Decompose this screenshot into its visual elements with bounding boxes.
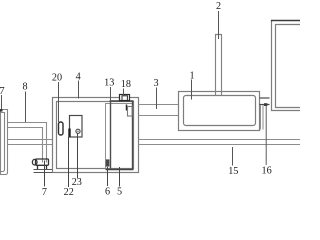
tick inside chamber top: [126, 105, 128, 111]
junction blob: [264, 103, 267, 106]
drop duct beside box 1: [261, 105, 264, 130]
leader 18: [123, 89, 125, 96]
leader 1: [191, 80, 193, 100]
pump 7: [32, 159, 48, 169]
tower box (top right): [272, 21, 301, 111]
box 4 outer: [53, 98, 139, 173]
chamber 5 dark top: [110, 100, 134, 102]
pipe 3: [139, 105, 179, 116]
leader 15: [232, 147, 234, 166]
box 1 inner: [184, 96, 256, 126]
svg-text:18: 18: [121, 79, 131, 90]
svg-text:15: 15: [228, 166, 238, 177]
svg-text:13: 13: [104, 78, 114, 89]
svg-text:7: 7: [42, 187, 47, 198]
tower top dark edge: [271, 20, 300, 22]
inlet bracket: [128, 107, 133, 117]
dark mark 22: [68, 129, 70, 138]
leader 3: [156, 88, 158, 110]
connector duct box1 to tower: [260, 98, 270, 105]
svg-text:20: 20: [52, 73, 62, 84]
leader 8: [25, 92, 27, 123]
leader 4: [78, 81, 80, 99]
chamber 5 dark right wall: [132, 101, 134, 170]
svg-text:3: 3: [153, 78, 158, 89]
chamber 5 outer shell: [106, 104, 134, 169]
svg-text:7: 7: [0, 85, 5, 97]
cap 18: [120, 95, 130, 101]
pipe lower left: [8, 140, 54, 145]
pipe 8 upper: [8, 123, 47, 163]
control box 22/23: [70, 116, 83, 138]
svg-text:8: 8: [22, 81, 27, 92]
leader 23: [77, 134, 79, 179]
leader 13: [110, 87, 112, 104]
leader 17: [1, 95, 3, 109]
leader 6: [107, 167, 109, 186]
leader 22: [68, 137, 70, 187]
leader 5: [119, 167, 121, 187]
svg-text:2: 2: [216, 1, 221, 12]
svg-text:5: 5: [117, 187, 122, 198]
vessel 17 (left edge, partially cut): [1, 110, 8, 175]
slot 20: [59, 122, 64, 135]
box 1 outer: [179, 92, 260, 131]
pump base plate: [34, 170, 53, 173]
leader 7: [44, 161, 46, 187]
pipe 15 (long bottom duct): [139, 140, 301, 145]
leader 20: [58, 82, 60, 122]
leader 2: [218, 11, 220, 39]
svg-text:6: 6: [105, 186, 110, 197]
circle 23: [76, 129, 80, 133]
vessel 17 top dark mark: [0, 109, 3, 112]
chamber 5 dark bottom: [106, 169, 134, 171]
svg-text:16: 16: [262, 166, 272, 177]
svg-text:22: 22: [64, 187, 74, 198]
chamber 5 dark left wall: [110, 101, 112, 169]
leader 16: [265, 106, 267, 166]
stack tube 2: [216, 35, 222, 96]
box 4 inner: [57, 102, 134, 169]
nub 6 (bottom-left dark block): [106, 159, 110, 166]
svg-text:23: 23: [72, 177, 82, 188]
